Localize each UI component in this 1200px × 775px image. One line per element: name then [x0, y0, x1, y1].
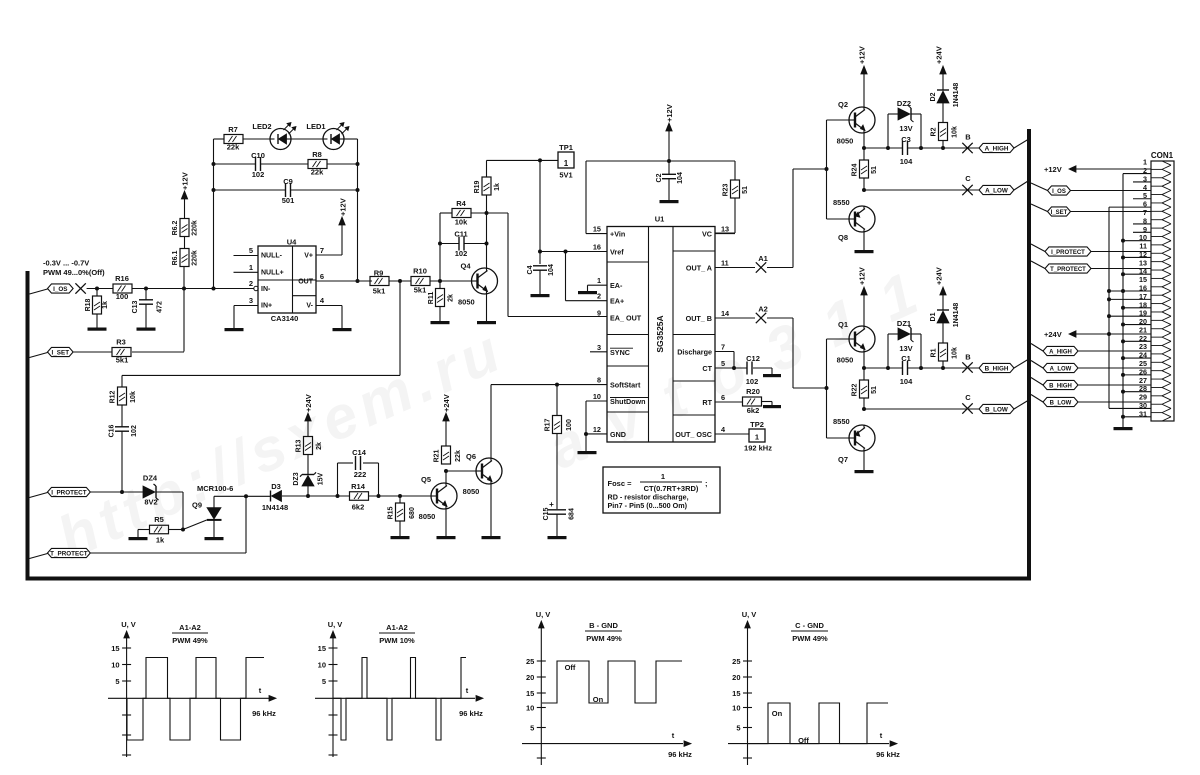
svg-text:501: 501 — [282, 196, 295, 205]
svg-text:Fosc =: Fosc = — [608, 479, 633, 488]
svg-text:22k: 22k — [455, 450, 462, 462]
svg-text:C: C — [965, 174, 971, 183]
svg-text:U1: U1 — [655, 215, 665, 224]
svg-text:192 kHz: 192 kHz — [744, 444, 772, 453]
svg-text:LED1: LED1 — [306, 122, 325, 131]
svg-text:+12V: +12V — [181, 172, 190, 190]
svg-text:8050: 8050 — [419, 512, 436, 521]
svg-text:GND: GND — [610, 430, 626, 439]
svg-text:A2: A2 — [758, 305, 768, 314]
svg-text:13V: 13V — [899, 124, 912, 133]
svg-text:1: 1 — [755, 433, 759, 442]
svg-text:C1: C1 — [901, 354, 911, 363]
svg-text:+Vin: +Vin — [610, 230, 625, 239]
svg-text:Q5: Q5 — [421, 475, 431, 484]
svg-text:D2: D2 — [930, 92, 937, 101]
svg-text:3: 3 — [597, 343, 601, 352]
svg-text:1: 1 — [249, 263, 253, 272]
svg-text:2k: 2k — [448, 294, 455, 302]
svg-text:NULL-: NULL- — [261, 253, 283, 260]
svg-text:+24V: +24V — [304, 394, 313, 412]
svg-text:20: 20 — [526, 673, 534, 682]
svg-text:V-: V- — [306, 303, 313, 310]
svg-text:C16: C16 — [109, 424, 116, 437]
svg-text:3: 3 — [249, 296, 253, 305]
svg-text:I_PROTECT: I_PROTECT — [51, 489, 86, 496]
svg-text:R8: R8 — [312, 150, 322, 159]
svg-text:104: 104 — [900, 377, 913, 386]
svg-text:6: 6 — [721, 393, 725, 402]
svg-text:102: 102 — [746, 377, 759, 386]
svg-text:OUT_ OSC: OUT_ OSC — [675, 430, 712, 439]
svg-text:C13: C13 — [132, 300, 139, 313]
svg-text:U, V: U, V — [328, 620, 343, 629]
svg-text:LED2: LED2 — [252, 122, 271, 131]
svg-text:5: 5 — [530, 724, 534, 733]
svg-text:684: 684 — [569, 508, 576, 520]
svg-text:Discharge: Discharge — [677, 348, 712, 357]
svg-text:R7: R7 — [228, 125, 238, 134]
svg-text:R13: R13 — [296, 439, 303, 452]
svg-text:+: + — [549, 500, 554, 509]
svg-text:R5: R5 — [154, 515, 164, 524]
svg-text:A1-A2: A1-A2 — [386, 623, 408, 632]
svg-text:R23: R23 — [723, 183, 730, 196]
svg-text:8550: 8550 — [833, 198, 850, 207]
svg-text:R14: R14 — [351, 482, 366, 491]
svg-text:R24: R24 — [852, 163, 859, 176]
svg-text:104: 104 — [900, 157, 913, 166]
svg-text:5V1: 5V1 — [559, 171, 572, 180]
svg-text:96 kHz: 96 kHz — [876, 750, 900, 759]
svg-text:SYNC: SYNC — [610, 348, 630, 357]
svg-text:15: 15 — [732, 689, 740, 698]
svg-text:472: 472 — [157, 301, 164, 313]
svg-text:25: 25 — [732, 657, 740, 666]
svg-text:96 kHz: 96 kHz — [252, 709, 276, 718]
svg-text:ShutDown: ShutDown — [610, 397, 646, 406]
svg-text:CT: CT — [702, 364, 712, 373]
svg-text:-0.3V ... -0.7V: -0.3V ... -0.7V — [43, 259, 89, 268]
svg-text:A1: A1 — [758, 254, 768, 263]
svg-text:TP2: TP2 — [750, 420, 764, 429]
svg-text:R6.1: R6.1 — [172, 251, 179, 266]
svg-text:R3: R3 — [116, 338, 126, 347]
svg-text:U, V: U, V — [742, 610, 757, 619]
svg-text:15: 15 — [318, 644, 326, 653]
svg-text:DZ2: DZ2 — [897, 99, 911, 108]
svg-text:680: 680 — [409, 507, 416, 519]
svg-text:8050: 8050 — [463, 487, 480, 496]
svg-text:+24V: +24V — [935, 267, 944, 285]
svg-text:96 kHz: 96 kHz — [459, 709, 483, 718]
svg-text:7: 7 — [320, 246, 324, 255]
svg-text:+12V: +12V — [858, 267, 867, 285]
svg-text:NULL+: NULL+ — [261, 270, 284, 277]
svg-text:R11: R11 — [428, 292, 435, 305]
svg-text:10k: 10k — [952, 347, 959, 359]
svg-text:R19: R19 — [474, 180, 481, 193]
svg-text:2: 2 — [249, 279, 253, 288]
svg-text:+24V: +24V — [935, 46, 944, 64]
svg-text:EA-: EA- — [610, 281, 623, 290]
svg-text:5k1: 5k1 — [414, 286, 427, 295]
svg-text:102: 102 — [131, 425, 138, 437]
svg-text:220k: 220k — [192, 250, 199, 266]
svg-text:1: 1 — [661, 472, 665, 481]
svg-text:104: 104 — [548, 264, 555, 276]
svg-text:B: B — [965, 133, 971, 142]
svg-text:B_LOW: B_LOW — [985, 406, 1008, 413]
svg-text:I_SET: I_SET — [52, 349, 70, 356]
svg-text:MCR100-6: MCR100-6 — [197, 484, 233, 493]
svg-text:51: 51 — [871, 386, 878, 394]
svg-text:22k: 22k — [311, 168, 324, 177]
svg-text:U, V: U, V — [536, 610, 551, 619]
svg-text:Vref: Vref — [610, 248, 624, 257]
svg-text:A1-A2: A1-A2 — [179, 623, 201, 632]
svg-text:+12V: +12V — [665, 104, 674, 122]
svg-text:C9: C9 — [283, 177, 293, 186]
svg-text:EA_ OUT: EA_ OUT — [610, 314, 642, 323]
svg-text:C - GND: C - GND — [795, 621, 824, 630]
svg-text:TP1: TP1 — [559, 143, 573, 152]
svg-text:1: 1 — [597, 276, 601, 285]
svg-text:+12V: +12V — [1044, 165, 1062, 174]
svg-text:R20: R20 — [746, 387, 760, 396]
svg-text:1N4148: 1N4148 — [953, 303, 960, 328]
svg-text:R12: R12 — [110, 390, 117, 403]
svg-text:51: 51 — [871, 166, 878, 174]
svg-text:Q6: Q6 — [466, 452, 476, 461]
svg-text:9: 9 — [597, 309, 601, 318]
svg-text:100: 100 — [566, 419, 573, 431]
svg-text:104: 104 — [677, 172, 684, 184]
svg-text:15: 15 — [593, 225, 601, 234]
svg-text:10: 10 — [732, 704, 740, 713]
svg-text:B - GND: B - GND — [589, 621, 618, 630]
svg-text:C10: C10 — [251, 151, 265, 160]
svg-text:B_HIGH: B_HIGH — [985, 365, 1009, 372]
svg-text:5: 5 — [115, 677, 119, 686]
svg-text:1: 1 — [564, 159, 569, 168]
svg-text:Pin7 - Pin5 (0...500 Om): Pin7 - Pin5 (0...500 Om) — [608, 501, 688, 510]
svg-text:T_PROTECT: T_PROTECT — [1050, 267, 1086, 273]
svg-text:OUT_ B: OUT_ B — [686, 314, 712, 323]
svg-text:Q9: Q9 — [192, 501, 202, 510]
svg-text:R21: R21 — [434, 449, 441, 462]
svg-text:B_HIGH: B_HIGH — [1049, 383, 1072, 389]
svg-text:2: 2 — [597, 292, 601, 301]
svg-text:10k: 10k — [455, 218, 468, 227]
svg-text:Q1: Q1 — [838, 320, 848, 329]
svg-text:1N4148: 1N4148 — [262, 503, 288, 512]
svg-text:12: 12 — [593, 425, 601, 434]
svg-text:5: 5 — [736, 724, 740, 733]
svg-text:10: 10 — [593, 392, 601, 401]
svg-text:C: C — [965, 393, 971, 402]
svg-text:13V: 13V — [899, 344, 912, 353]
svg-text:IN+: IN+ — [261, 303, 272, 310]
svg-text:R17: R17 — [545, 418, 552, 431]
svg-text:1N4148: 1N4148 — [953, 83, 960, 108]
svg-text:DZ1: DZ1 — [897, 319, 911, 328]
svg-text:5: 5 — [249, 246, 253, 255]
svg-text:DZ4: DZ4 — [143, 474, 158, 483]
svg-text:I_OS: I_OS — [53, 286, 67, 293]
svg-text:13: 13 — [721, 225, 729, 234]
svg-text:;: ; — [705, 479, 708, 488]
svg-text:+24V: +24V — [442, 394, 451, 412]
svg-text:5k1: 5k1 — [373, 287, 386, 296]
svg-text:C11: C11 — [454, 230, 467, 239]
svg-text:5: 5 — [721, 359, 725, 368]
svg-text:100: 100 — [116, 292, 129, 301]
svg-text:Q7: Q7 — [838, 455, 848, 464]
svg-text:PWM 49%: PWM 49% — [172, 636, 208, 645]
svg-text:Q8: Q8 — [838, 233, 848, 242]
svg-text:SG3525A: SG3525A — [655, 315, 665, 352]
svg-text:+12V: +12V — [339, 198, 348, 216]
svg-text:C2: C2 — [656, 173, 663, 182]
svg-text:OUT_ A: OUT_ A — [686, 264, 712, 273]
svg-text:8050: 8050 — [837, 137, 854, 146]
svg-text:8050: 8050 — [458, 298, 475, 307]
svg-text:22k: 22k — [227, 143, 240, 152]
svg-text:C4: C4 — [527, 265, 534, 274]
svg-text:11: 11 — [721, 259, 729, 268]
svg-text:14: 14 — [721, 309, 730, 318]
svg-text:A_HIGH: A_HIGH — [1049, 349, 1072, 355]
svg-text:102: 102 — [252, 170, 265, 179]
svg-text:8V2: 8V2 — [144, 498, 157, 507]
svg-text:PWM 49%: PWM 49% — [586, 634, 622, 643]
svg-text:1k: 1k — [156, 536, 165, 545]
svg-text:222: 222 — [354, 470, 367, 479]
svg-text:C3: C3 — [901, 135, 911, 144]
svg-text:D1: D1 — [930, 312, 937, 321]
svg-text:T_PROTECT: T_PROTECT — [50, 550, 88, 557]
svg-text:102: 102 — [455, 249, 468, 258]
svg-text:+24V: +24V — [1044, 330, 1062, 339]
svg-text:A_LOW: A_LOW — [1050, 366, 1072, 372]
svg-text:8050: 8050 — [837, 356, 854, 365]
svg-text:EA+: EA+ — [610, 297, 624, 306]
svg-text:15: 15 — [526, 689, 534, 698]
svg-text:RT: RT — [702, 398, 712, 407]
svg-text:20: 20 — [732, 673, 740, 682]
svg-text:I_OS: I_OS — [1052, 189, 1066, 195]
svg-text:DZ3: DZ3 — [293, 472, 300, 485]
svg-text:A_LOW: A_LOW — [985, 187, 1008, 194]
svg-text:8: 8 — [597, 376, 601, 385]
svg-text:B: B — [965, 353, 971, 362]
svg-text:R9: R9 — [374, 269, 384, 278]
svg-text:1k: 1k — [102, 301, 109, 309]
svg-text:Q2: Q2 — [838, 100, 848, 109]
svg-text:R15: R15 — [388, 506, 395, 519]
svg-text:5k1: 5k1 — [116, 356, 129, 365]
svg-text:CA3140: CA3140 — [271, 314, 299, 323]
svg-text:+12V: +12V — [858, 46, 867, 64]
svg-text:R16: R16 — [115, 274, 129, 283]
svg-text:R2: R2 — [931, 127, 938, 136]
svg-text:6k2: 6k2 — [747, 406, 760, 415]
svg-text:96 kHz: 96 kHz — [668, 750, 692, 759]
svg-text:C15: C15 — [543, 507, 550, 520]
svg-text:B_LOW: B_LOW — [1050, 400, 1072, 406]
svg-text:2k: 2k — [316, 442, 323, 450]
svg-text:8550: 8550 — [833, 417, 850, 426]
svg-text:PWM 49...0%(Off): PWM 49...0%(Off) — [43, 268, 105, 277]
svg-text:6k2: 6k2 — [352, 503, 365, 512]
svg-text:25: 25 — [526, 657, 534, 666]
svg-text:C14: C14 — [352, 448, 367, 457]
svg-text:U4: U4 — [287, 238, 297, 247]
svg-text:10: 10 — [111, 661, 119, 670]
svg-text:U, V: U, V — [121, 620, 136, 629]
svg-text:D3: D3 — [271, 482, 281, 491]
svg-text:10k: 10k — [952, 126, 959, 138]
svg-text:R10: R10 — [413, 267, 427, 276]
svg-text:PWM 49%: PWM 49% — [792, 634, 828, 643]
svg-text:VC: VC — [702, 230, 712, 239]
svg-text:CON1: CON1 — [1151, 151, 1174, 160]
svg-text:IN-: IN- — [261, 286, 271, 293]
svg-text:5: 5 — [322, 677, 326, 686]
svg-text:7: 7 — [721, 343, 725, 352]
svg-text:R18: R18 — [85, 298, 92, 311]
svg-text:On: On — [593, 695, 604, 704]
svg-text:On: On — [772, 709, 783, 718]
svg-text:10: 10 — [318, 661, 326, 670]
svg-text:1k: 1k — [494, 183, 501, 191]
svg-text:PWM 10%: PWM 10% — [379, 636, 415, 645]
svg-text:10: 10 — [526, 704, 534, 713]
svg-text:15: 15 — [111, 644, 119, 653]
svg-text:I_SET: I_SET — [1051, 210, 1068, 216]
svg-text:Q4: Q4 — [461, 262, 472, 271]
svg-text:220k: 220k — [192, 220, 199, 236]
svg-text:16: 16 — [593, 243, 601, 252]
svg-text:6: 6 — [320, 272, 324, 281]
svg-text:15V: 15V — [318, 472, 325, 485]
svg-text:Off: Off — [565, 663, 576, 672]
svg-text:51: 51 — [742, 186, 749, 194]
svg-text:R1: R1 — [931, 348, 938, 357]
svg-text:R22: R22 — [852, 383, 859, 396]
svg-text:10k: 10k — [130, 391, 137, 403]
svg-text:OUT: OUT — [298, 279, 314, 286]
svg-text:SoftStart: SoftStart — [610, 381, 641, 390]
svg-text:R6.2: R6.2 — [172, 221, 179, 236]
svg-text:V+: V+ — [304, 253, 313, 260]
svg-text:Off: Off — [798, 736, 809, 745]
svg-text:I_PROTECT: I_PROTECT — [1051, 250, 1085, 256]
svg-text:R4: R4 — [456, 199, 466, 208]
svg-text:C12: C12 — [746, 354, 760, 363]
svg-text:A_HIGH: A_HIGH — [985, 145, 1009, 152]
